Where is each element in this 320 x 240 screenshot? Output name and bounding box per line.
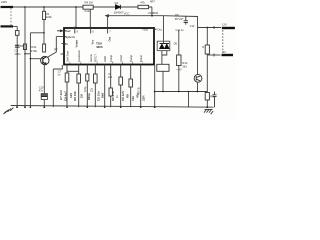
svg-text:D6: D6 [174, 41, 178, 45]
wire base link [30, 58, 40, 60]
dashed link between outputs [222, 30, 224, 53]
wire vertical x207.3 [206, 28, 208, 56]
svg-text:Sync In: Sync In [65, 35, 75, 39]
IC pin tick top x90.7 [90, 27, 92, 34]
resistor R1 top (vertical box) [43, 11, 46, 19]
svg-text:Out: Out [157, 27, 162, 31]
AC input lead L (bold) [1, 6, 14, 8]
wire horizontal y91.5 [155, 91, 208, 93]
node top rail x44 [43, 6, 45, 8]
svg-text:2n2: 2n2 [108, 76, 113, 79]
ground left [3, 108, 13, 114]
feedback wire arrow left [105, 14, 109, 17]
svg-text:BYV27: BYV27 [175, 17, 184, 21]
svg-text:47k: 47k [140, 0, 145, 4]
pin wire x95.3 [94, 65, 96, 108]
node x44 y32.8 [43, 32, 45, 34]
fuse F1 on N wire [15, 31, 19, 36]
wire vertical x90.3 [89, 9, 91, 28]
svg-text:47u: 47u [39, 88, 44, 92]
wire C3 to rail [43, 100, 45, 108]
svg-text:220k: 220k [46, 15, 53, 19]
wire vertical x197.5 mid [197, 28, 199, 92]
transistor Q1 [41, 56, 49, 64]
IC left pin tick 1 [63, 30, 66, 32]
pin numbers bottom [69, 62, 144, 65]
wire Q1 emitter down x44.3 [43, 65, 45, 94]
svg-text:47n: 47n [135, 93, 139, 98]
resistor on x78.7 [77, 74, 81, 83]
pin column labels (rotated smudges) [65, 50, 142, 62]
IC left pin arrow [57, 30, 63, 32]
wire top rail [13, 6, 152, 8]
svg-text:6k8: 6k8 [100, 93, 104, 98]
svg-text:C9 4n7: C9 4n7 [63, 91, 67, 101]
capacitor x214.5 [212, 92, 216, 108]
capacitor on x87.3 [86, 74, 89, 81]
svg-text:100n: 100n [14, 52, 21, 56]
IC pin tick top x107.6 [107, 27, 109, 34]
svg-text:22R: 22R [141, 95, 145, 101]
node y91.5 x197.5 [197, 91, 199, 93]
svg-text:Out: Out [107, 37, 111, 42]
svg-text:In: In [65, 42, 68, 46]
resistor on x110.7 [109, 88, 112, 96]
svg-text:R9 15k: R9 15k [73, 91, 77, 101]
optocoupler box IC2 [157, 64, 169, 71]
IC pin tick top x74.8 [74, 27, 76, 34]
fuse box on rail [83, 5, 93, 9]
svg-text:1N4007: 1N4007 [114, 10, 124, 14]
output1 tick [213, 26, 215, 29]
wire vertical x18 [16, 26, 18, 107]
wire top right y16.2 [164, 16, 198, 28]
value labels below IC [59, 90, 146, 101]
svg-text:2mH: 2mH [84, 9, 90, 13]
node output1 x207.3 [206, 27, 208, 29]
node x25 y53.8 [24, 53, 26, 55]
wire diodes down [162, 51, 167, 65]
ground right [204, 109, 213, 114]
svg-text:R8: R8 [125, 94, 129, 98]
IC U1 box [64, 28, 154, 65]
IC left pin tick y54 [61, 53, 65, 55]
capacitor on x120.7 [119, 77, 123, 85]
pin wire x87.3 [86, 65, 88, 108]
svg-text:100p: 100p [84, 86, 87, 92]
pin wire x140.7 [140, 65, 142, 108]
svg-text:Vcc: Vcc [90, 39, 94, 44]
wire vertical x76 [75, 7, 77, 28]
wire vertical x25.5 [24, 7, 26, 107]
resistor R13 bottom right [205, 93, 209, 101]
svg-text:4605: 4605 [96, 45, 103, 49]
link wire y53.8 [25, 53, 30, 55]
output2 tick [213, 54, 215, 57]
capacitor on x130.7 [129, 79, 133, 87]
node x188.5 y91.5 [188, 91, 190, 93]
wire vertical x178.8 [178, 30, 180, 92]
svg-text:D1: D1 [115, 1, 119, 5]
output rail 1 [198, 27, 222, 29]
svg-text:Isense: Isense [89, 54, 93, 62]
IC left pin tick 2 [63, 36, 66, 38]
switch gang dashed link [10, 8, 12, 26]
svg-text:230V: 230V [1, 0, 7, 4]
wire vertical x53.3 [52, 69, 54, 107]
wire vertical x30 [30, 33, 44, 107]
dual diode D2 D3 package outline [157, 41, 170, 50]
svg-text:1n: 1n [57, 73, 60, 77]
IC right pin tick [153, 28, 157, 30]
svg-text:UC3842: UC3842 [148, 11, 159, 15]
transistor/opto circle Q2 [194, 74, 202, 82]
capacitor at x185.8 [184, 16, 188, 24]
svg-text:R3: R3 [20, 44, 24, 48]
svg-text:T600: T600 [142, 28, 149, 32]
output2 bold bar [222, 54, 234, 56]
dual diode D2 D3 [160, 44, 170, 49]
wire vertical x107.6 pin3 [107, 16, 109, 28]
svg-text:R14: R14 [182, 61, 187, 65]
svg-text:12V: 12V [222, 23, 227, 27]
link wire with arrow [67, 70, 79, 72]
resistor R12 on x207.3 [205, 45, 209, 54]
pin wire x120.7 [120, 65, 122, 108]
capacitor C3 electrolytic above rail [41, 94, 47, 100]
wire jog pin to x53.3 [53, 65, 62, 69]
svg-text:D8: D8 [175, 13, 179, 17]
output1 bold bar [222, 27, 235, 29]
wire vertical x44 upper [43, 7, 45, 44]
svg-text:C12: C12 [190, 24, 195, 28]
IC left pin tick 3 [62, 43, 66, 45]
svg-text:R7: R7 [54, 47, 58, 51]
svg-text:3k3: 3k3 [182, 64, 187, 68]
pin wire x130.7 [130, 65, 132, 108]
opto internals [196, 76, 200, 81]
wire vertical x163.5 top [163, 16, 165, 43]
resistor R8 on x178.8 [177, 55, 181, 66]
pin wire x110.7 [110, 65, 112, 108]
output rail 2 [207, 54, 220, 56]
varistor on x25 [24, 44, 27, 50]
diode D1 on rail [116, 5, 121, 9]
svg-text:Soft Start: Soft Start [65, 51, 69, 62]
svg-text:C7 2n2: C7 2n2 [59, 90, 63, 100]
resistor on x67 [65, 73, 69, 82]
wire x207.3 lower [206, 55, 208, 107]
svg-text:Vref: Vref [65, 29, 70, 33]
node feedback x152 [151, 15, 153, 17]
node top rail x25.5 [24, 6, 26, 8]
pin wire x78.7 [78, 65, 80, 108]
svg-text:Feedback: Feedback [77, 50, 81, 62]
svg-text:R: R [202, 45, 204, 49]
svg-text:820p: 820p [87, 93, 91, 100]
node base [30, 58, 32, 60]
pin wire x67 [66, 65, 68, 108]
resistor on x95.3 [94, 74, 98, 83]
wire rail end down [151, 7, 153, 16]
wire box down to y91.5 [162, 71, 164, 91]
wire vertical x188.5 [188, 92, 190, 108]
svg-text:GND: GND [103, 56, 107, 62]
capacitor C2 on x18 [15, 45, 20, 47]
resistor R3 on rail (box) [138, 5, 149, 8]
wire N to switch [13, 25, 17, 27]
bottom rail [11, 106, 214, 108]
svg-text:Vstart: Vstart [75, 40, 79, 48]
svg-text:VCC: VCC [124, 11, 130, 15]
top pin inner labels [75, 37, 112, 48]
node x154.7 y91.5 [154, 91, 156, 93]
svg-text:C8: C8 [80, 94, 84, 98]
svg-text:R4 1M: R4 1M [85, 1, 94, 5]
wire IC right corner down [154, 65, 156, 108]
feedback wire [106, 15, 164, 17]
svg-text:4R7: 4R7 [150, 0, 155, 4]
node top rail x76 [75, 6, 77, 8]
IC bottom pins group [59, 50, 146, 108]
pin wire x104.7 [104, 65, 106, 108]
svg-text:C11 1u: C11 1u [176, 28, 185, 32]
AC input lead N (bold) [1, 25, 14, 27]
rail junction nodes [16, 91, 208, 108]
svg-text:R6 47k: R6 47k [111, 91, 115, 101]
wire left pin2 to Q1 [47, 37, 64, 58]
resistor R2 (vertical box) [43, 44, 46, 52]
svg-text:470k: 470k [31, 49, 38, 53]
